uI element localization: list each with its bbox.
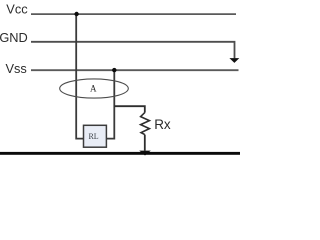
wire branch to Rx [114,106,145,112]
svg-text:Vcc: Vcc [6,2,28,17]
ammeter A ellipse [60,79,129,98]
wire Vss rail [31,69,239,71]
wire left drop from Vcc to RL [76,14,83,139]
resistor Rx zigzag [141,113,150,135]
wire right drop from Vss to RL [106,70,114,138]
svg-text:Vss: Vss [6,61,27,76]
svg-text:Rx: Rx [154,117,171,132]
wire Vcc rail [31,13,236,15]
svg-text:GND: GND [0,30,28,45]
arrowhead on GND drop [229,58,239,63]
bottom border line [0,152,240,155]
resistor RL box [84,125,107,147]
arrowhead below Rx [139,151,151,156]
junction dot on Vcc [74,12,78,16]
svg-text:A: A [90,83,97,93]
wire GND rail with corner down [31,42,235,59]
svg-text:RL: RL [88,132,98,141]
junction dot on Vss [112,68,116,72]
wire below Rx [144,135,146,151]
